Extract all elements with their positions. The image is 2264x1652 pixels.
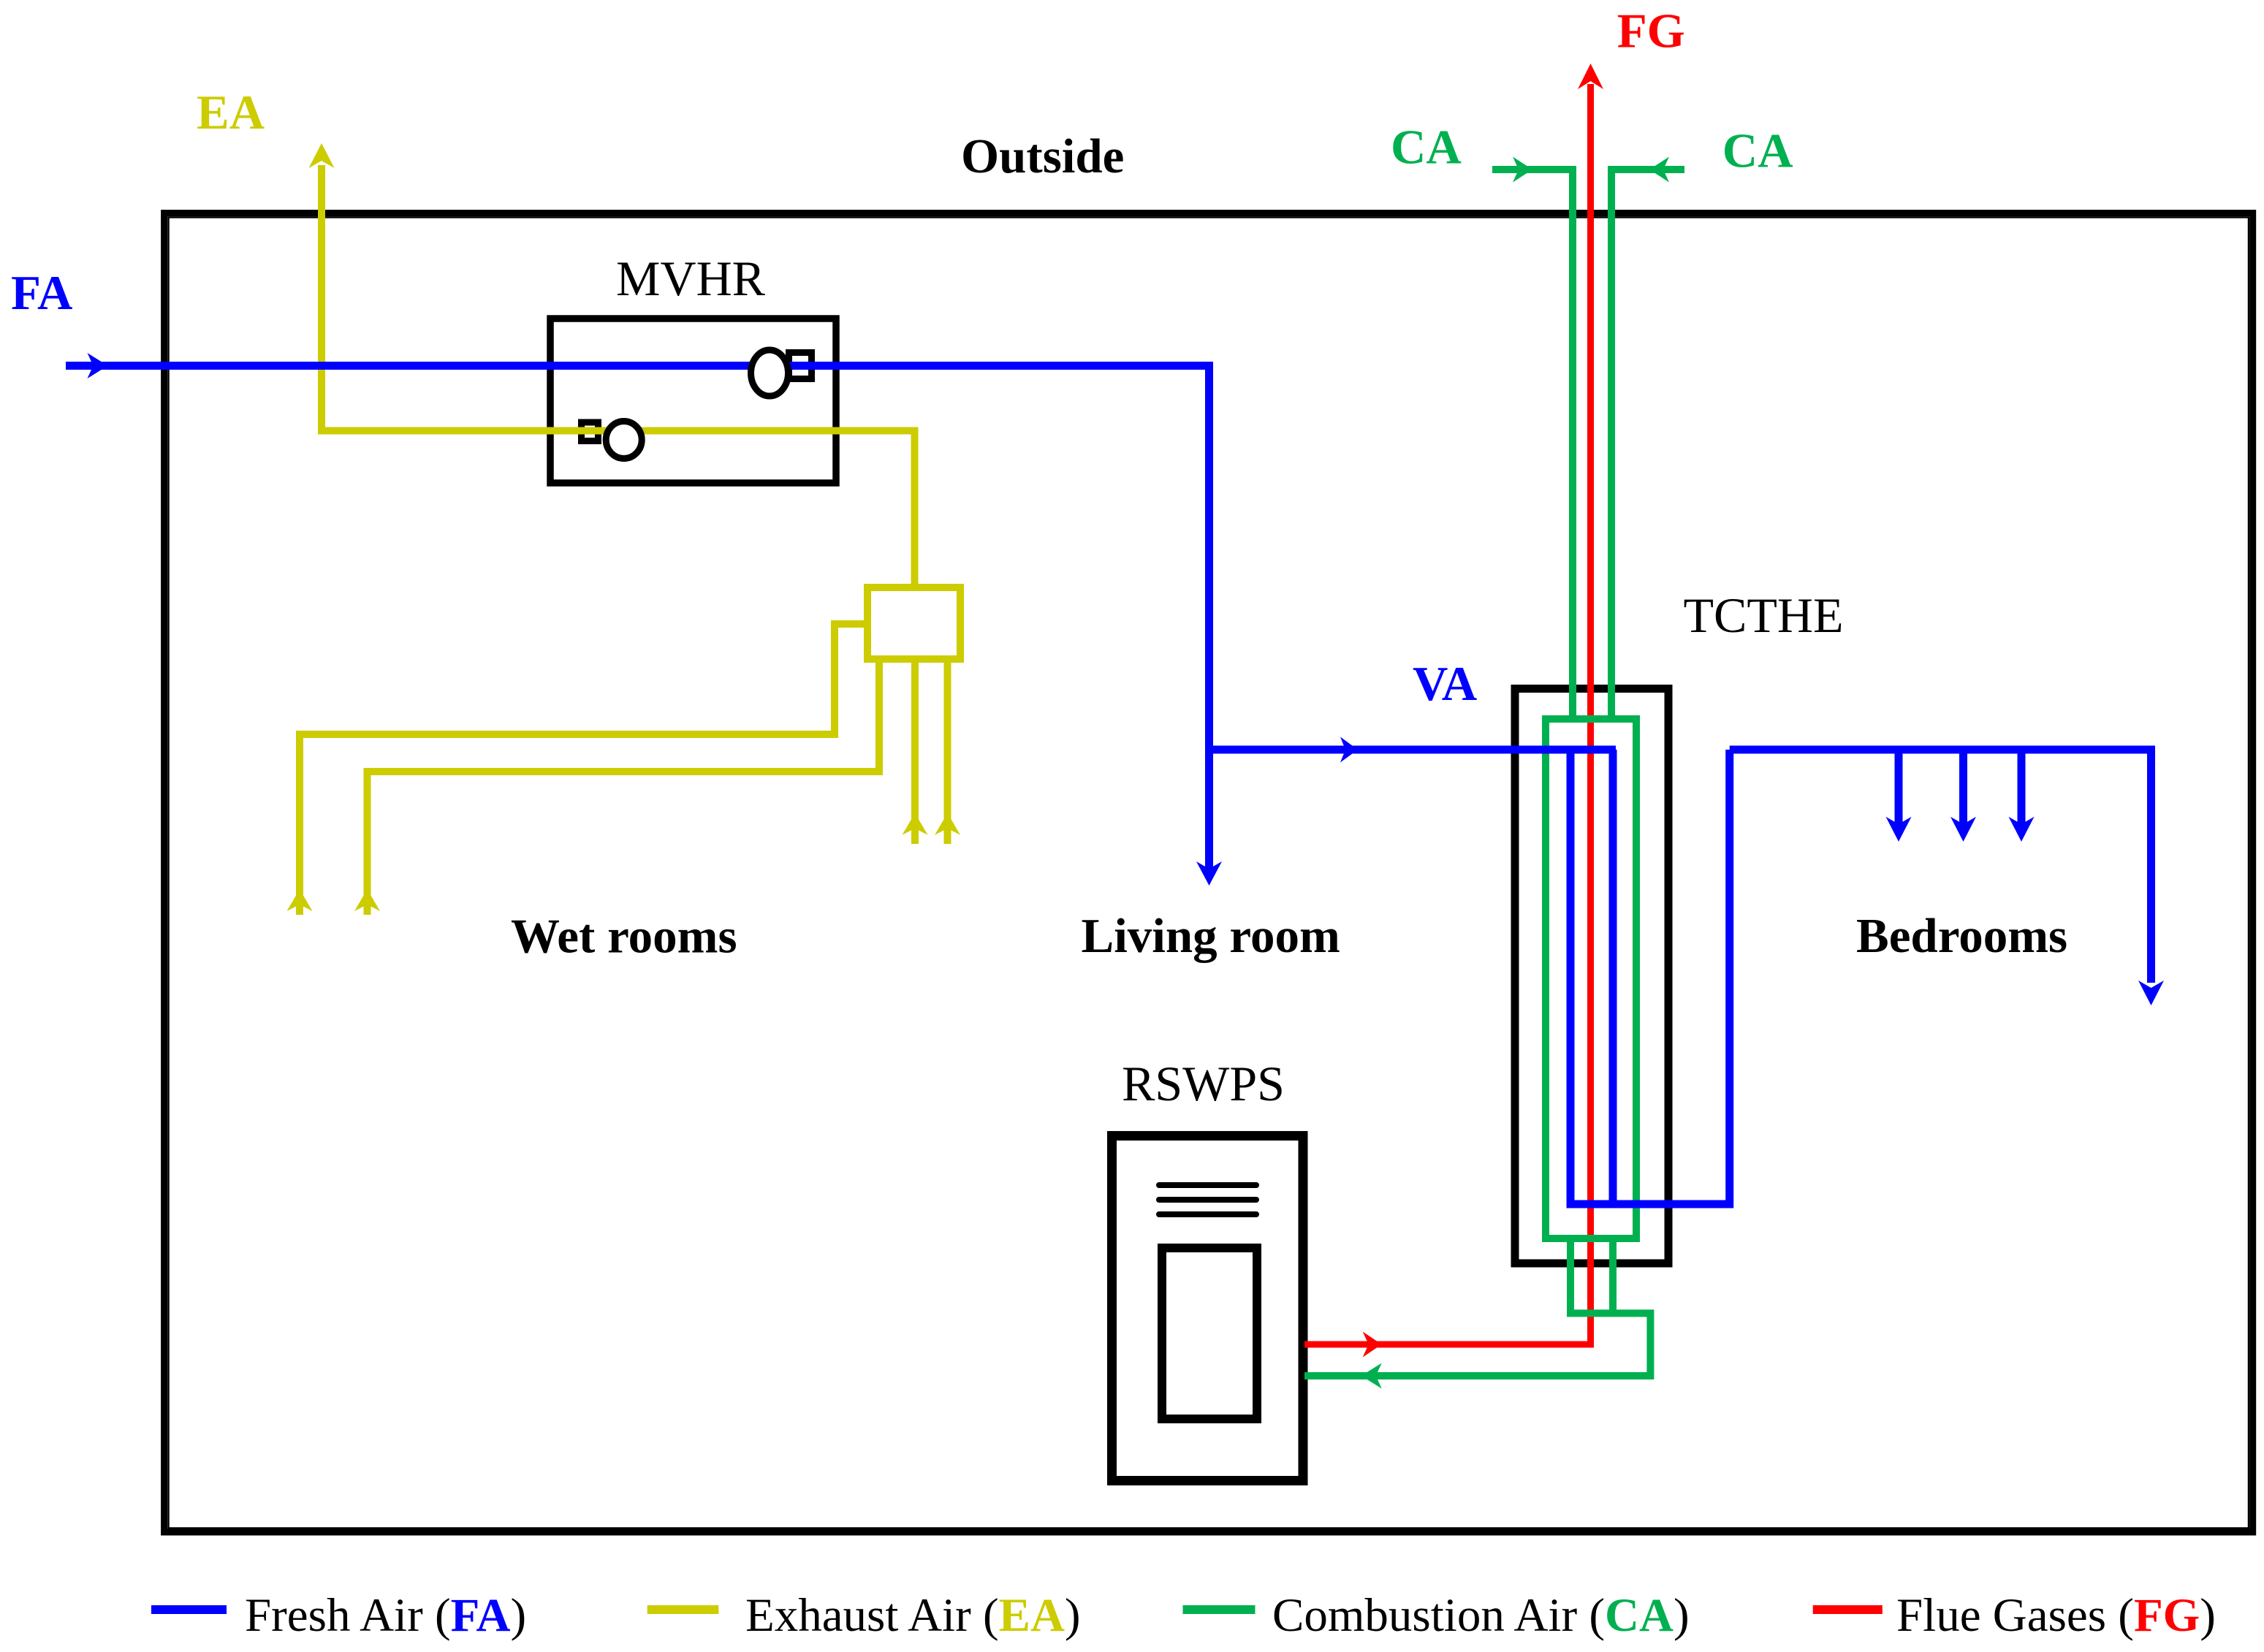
svg-text:Living room: Living room [1082, 909, 1340, 963]
svg-text:FG: FG [1617, 4, 1685, 58]
svg-text:CA: CA [1391, 121, 1462, 175]
svg-text:Combustion Air (CA): Combustion Air (CA) [1272, 1589, 1690, 1642]
svg-text:TCTHE: TCTHE [1684, 587, 1844, 643]
svg-text:Flue Gases (FG): Flue Gases (FG) [1896, 1589, 2216, 1642]
svg-text:Outside: Outside [961, 129, 1124, 183]
svg-text:Wet rooms: Wet rooms [511, 910, 737, 964]
svg-text:EA: EA [197, 85, 265, 140]
svg-text:FA: FA [11, 266, 72, 320]
svg-text:Fresh Air (FA): Fresh Air (FA) [245, 1589, 526, 1642]
svg-text:Bedrooms: Bedrooms [1856, 909, 2067, 963]
svg-text:RSWPS: RSWPS [1122, 1056, 1285, 1111]
svg-text:VA: VA [1413, 657, 1477, 711]
svg-text:CA: CA [1722, 124, 1793, 178]
svg-text:Exhaust Air (EA): Exhaust Air (EA) [745, 1589, 1081, 1642]
svg-text:MVHR: MVHR [616, 251, 766, 306]
